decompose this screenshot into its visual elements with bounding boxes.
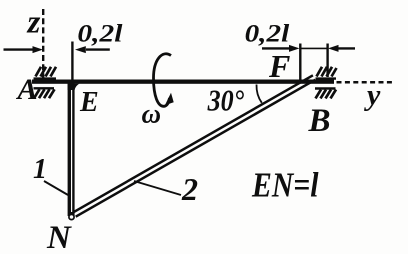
tick at B — [326, 44, 328, 78]
tick at E — [71, 42, 73, 81]
y axis dashed line — [337, 81, 395, 84]
support at A upper plate — [34, 67, 57, 79]
svg-text:1: 1 — [33, 154, 47, 185]
angle arc at B — [256, 85, 261, 103]
rod 1 EN (vertical double line) — [68, 83, 75, 216]
omega rotation arrow (curved arc) — [154, 54, 174, 107]
support at B lower plate — [315, 89, 336, 99]
dimension arrow right-inner (points right at F tick) — [262, 45, 300, 52]
svg-text:z: z — [27, 4, 41, 40]
z axis dashed line — [42, 9, 44, 78]
joint N (small circle) — [69, 214, 74, 219]
rod 2 NB (diagonal double line) — [73, 75, 315, 216]
fillet at E joint — [68, 84, 80, 90]
dimension line between F and B ticks — [300, 47, 327, 49]
dimension arrow left-outer (points right at z line) — [4, 46, 43, 53]
support at A lower plate — [34, 88, 55, 98]
svg-text:ω: ω — [142, 99, 162, 129]
svg-text:B: B — [308, 103, 331, 139]
svg-text:A: A — [16, 73, 38, 106]
svg-text:2: 2 — [181, 171, 198, 207]
svg-text:y: y — [364, 79, 381, 112]
support at B upper plate — [316, 67, 337, 79]
svg-text:E: E — [79, 87, 99, 118]
label 1 with leader line — [33, 154, 68, 195]
svg-text:N: N — [46, 220, 72, 254]
svg-text:EN=l: EN=l — [251, 166, 319, 205]
dimension arrow right-outer (points left at B tick) — [328, 45, 355, 52]
svg-text:F: F — [268, 48, 290, 84]
beam AB (horizontal rod) — [32, 80, 334, 84]
svg-text:0,2l: 0,2l — [77, 21, 122, 48]
dimension arrow left-inner (points left at E tick) — [75, 46, 110, 53]
svg-text:0,2l: 0,2l — [245, 21, 290, 48]
tick at F — [299, 44, 301, 80]
label 2 with leader line — [134, 171, 198, 207]
svg-text:30°: 30° — [207, 83, 245, 118]
